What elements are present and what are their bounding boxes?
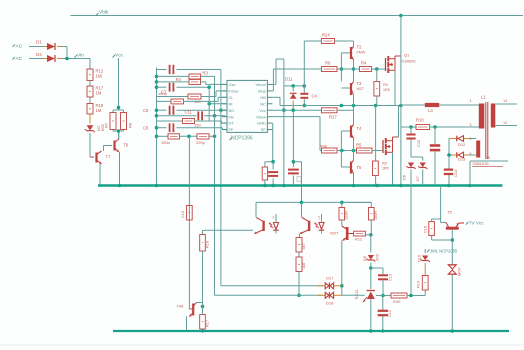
svg-text:D1: D1 (36, 40, 42, 45)
svg-text:R48: R48 (320, 145, 327, 149)
svg-text:JM1 NCP1065: JM1 NCP1065 (430, 249, 458, 254)
svg-text:SF: SF (261, 127, 267, 132)
svg-text:AC: AC (16, 56, 23, 62)
svg-text:R3: R3 (203, 71, 209, 76)
svg-text:K10A60D: K10A60D (401, 60, 417, 64)
svg-text:3: 3 (469, 123, 471, 127)
svg-text:2: 2 (273, 216, 275, 220)
svg-text:R1: R1 (383, 82, 389, 87)
svg-text:1k8: 1k8 (302, 263, 306, 269)
svg-text:C15: C15 (416, 139, 421, 147)
svg-text:R27: R27 (329, 114, 337, 119)
svg-text:1k5: 1k5 (96, 74, 103, 79)
svg-text:L1: L1 (481, 95, 486, 100)
svg-text:BO: BO (229, 108, 235, 113)
svg-text:D17: D17 (326, 276, 334, 281)
svg-text:C8: C8 (143, 126, 149, 131)
svg-text:C10: C10 (181, 211, 185, 218)
svg-text:R1C: R1C (355, 238, 363, 242)
svg-text:T4: T4 (357, 126, 363, 131)
svg-text:D12: D12 (458, 142, 466, 147)
svg-text:Vin: Vin (77, 53, 84, 59)
svg-text:R40: R40 (393, 299, 401, 304)
svg-text:R24: R24 (322, 33, 330, 38)
svg-text:DT: DT (229, 121, 235, 126)
svg-text:R7: R7 (104, 122, 109, 128)
svg-text:R4: R4 (176, 77, 182, 82)
svg-text:1M: 1M (96, 91, 102, 96)
svg-text:FF: FF (229, 127, 234, 132)
svg-text:R6: R6 (325, 61, 331, 66)
svg-text:Mlow: Mlow (257, 114, 266, 119)
svg-text:Vcc: Vcc (259, 108, 266, 113)
svg-text:100R: 100R (345, 211, 349, 220)
svg-text:1: 1 (469, 99, 471, 103)
svg-text:FB: FB (229, 114, 234, 119)
svg-text:Mup: Mup (258, 89, 267, 94)
svg-text:C12: C12 (388, 310, 392, 317)
svg-text:10: 10 (486, 156, 490, 160)
svg-text:750811153: 750811153 (472, 162, 489, 166)
svg-text:W27: W27 (357, 87, 364, 91)
svg-text:T9A: T9A (177, 305, 184, 309)
svg-text:L3: L3 (428, 108, 433, 113)
svg-text:R5: R5 (356, 143, 362, 148)
svg-text:D16: D16 (418, 255, 422, 262)
svg-text:R2: R2 (382, 161, 388, 166)
svg-text:1R5: 1R5 (382, 167, 389, 171)
svg-text:150: 150 (194, 123, 201, 128)
svg-text:12: 12 (503, 121, 507, 125)
svg-text:R16: R16 (206, 241, 210, 248)
svg-text:T3: T3 (357, 81, 363, 86)
svg-text:D8: D8 (363, 256, 367, 261)
svg-text:3V9: 3V9 (376, 254, 380, 261)
svg-text:NCP1396: NCP1396 (231, 136, 253, 142)
svg-text:R8: R8 (128, 122, 133, 128)
svg-text:T5: T5 (357, 165, 363, 170)
svg-text:Vboot: Vboot (255, 82, 266, 87)
svg-text:PMW: PMW (357, 51, 366, 55)
svg-text:1M: 1M (96, 108, 102, 113)
svg-text:Css: Css (229, 82, 236, 87)
svg-text:R10: R10 (416, 118, 424, 123)
svg-text:T8: T8 (124, 143, 130, 148)
svg-text:AC: AC (16, 44, 23, 50)
svg-text:R19: R19 (417, 281, 421, 288)
svg-text:D6: D6 (403, 175, 407, 180)
svg-text:T5: T5 (447, 210, 452, 215)
svg-text:Vblk: Vblk (99, 10, 109, 16)
svg-text:W2T: W2T (330, 231, 339, 236)
svg-text:C9: C9 (143, 108, 149, 113)
svg-text:2: 2 (318, 216, 320, 220)
svg-text:C13: C13 (389, 274, 393, 281)
svg-text:HB: HB (260, 95, 266, 100)
svg-text:100R: 100R (374, 211, 378, 220)
svg-text:D13: D13 (458, 157, 466, 162)
svg-text:GND: GND (257, 121, 266, 126)
svg-text:T7: T7 (106, 155, 112, 160)
svg-text:T2: T2 (357, 45, 363, 50)
svg-text:C16: C16 (424, 226, 428, 233)
svg-text:180p: 180p (158, 91, 168, 96)
svg-text:R4: R4 (361, 61, 367, 66)
svg-text:14: 14 (503, 99, 507, 103)
svg-text:C4: C4 (312, 94, 318, 99)
svg-text:150n: 150n (161, 140, 170, 145)
svg-text:D11: D11 (285, 77, 293, 82)
svg-text:C14: C14 (453, 169, 458, 177)
svg-text:NC: NC (260, 101, 266, 106)
svg-text:Vcc: Vcc (115, 53, 124, 59)
svg-text:Q1: Q1 (404, 53, 410, 58)
svg-text:4k7: 4k7 (302, 243, 306, 249)
svg-text:MOV: MOV (458, 267, 462, 276)
svg-text:220p: 220p (196, 140, 206, 145)
svg-text:Fmax: Fmax (229, 89, 239, 94)
svg-text:R17: R17 (206, 320, 210, 327)
svg-text:D4: D4 (36, 52, 42, 57)
svg-text:TL431: TL431 (355, 289, 359, 300)
svg-text:1R5: 1R5 (383, 88, 390, 92)
svg-text:C11: C11 (185, 110, 193, 115)
svg-text:7V Vcc: 7V Vcc (469, 221, 484, 226)
svg-text:D7: D7 (416, 176, 420, 181)
svg-text:D18: D18 (326, 301, 334, 306)
